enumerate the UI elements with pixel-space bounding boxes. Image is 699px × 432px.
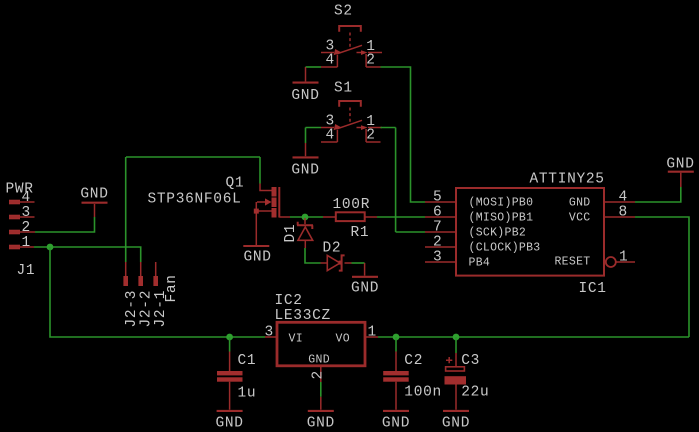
svg-text:GND: GND [308, 353, 330, 366]
svg-text:C3: C3 [461, 353, 480, 369]
connector J1 pin 1 [9, 235, 34, 251]
svg-text:100R: 100R [333, 197, 371, 213]
transistor Q1 MOSFET symbol [254, 184, 290, 246]
svg-text:GND: GND [291, 88, 319, 104]
IC2 pin 1 VO [366, 325, 378, 341]
svg-text:3: 3 [265, 325, 274, 341]
svg-text:GND: GND [442, 416, 470, 432]
svg-text:GND: GND [216, 416, 244, 432]
svg-text:J1: J1 [17, 263, 36, 279]
svg-text:2: 2 [433, 234, 442, 250]
wire 12V rail down and right to IC2 VI [50, 247, 265, 337]
IC1 pin 8 [605, 204, 635, 220]
ground below Q1 [243, 246, 271, 266]
wire S1 pin3 to GND [306, 128, 322, 144]
svg-text:STP36NF06L: STP36NF06L [148, 192, 242, 208]
connector J2-2 pin [138, 262, 143, 286]
wire IC1 pin8 VCC rail [378, 217, 689, 337]
wire drain net top horizontal [126, 156, 260, 158]
svg-text:Q1: Q1 [226, 176, 245, 192]
capacitor C1 [217, 352, 243, 410]
svg-text:4: 4 [326, 53, 335, 69]
svg-text:4: 4 [619, 189, 628, 205]
svg-text:VO: VO [336, 333, 350, 346]
svg-text:VCC: VCC [569, 212, 591, 225]
svg-text:4: 4 [22, 190, 31, 206]
IC1 pin 2 [425, 234, 455, 250]
ground below S2 [291, 67, 319, 104]
wire J1 pin1 to J2-2 [34, 247, 141, 262]
wire C1 to rail [229, 337, 231, 352]
IC2 pin 2 GND [311, 367, 327, 382]
node junction C3 top [453, 334, 460, 341]
ground below IC2 [307, 397, 335, 432]
svg-text:C2: C2 [404, 353, 423, 369]
capacitor C3 polarized [445, 353, 467, 410]
ground below C1 [216, 411, 244, 432]
connector J2-3 pin [123, 262, 128, 286]
svg-text:6: 6 [433, 204, 442, 220]
svg-text:GND: GND [80, 187, 108, 203]
svg-text:S1: S1 [334, 81, 353, 97]
svg-text:7: 7 [433, 219, 442, 235]
ground below C2 [382, 411, 410, 432]
svg-text:8: 8 [619, 204, 628, 220]
svg-text:GND: GND [666, 157, 694, 173]
svg-text:GND: GND [569, 197, 591, 210]
svg-text:2: 2 [366, 53, 375, 69]
IC1 pin 6 [425, 204, 455, 220]
svg-text:GND: GND [382, 416, 410, 432]
wire S2 pin4 to GND [306, 66, 322, 68]
IC1 box [456, 188, 604, 276]
svg-text:S2: S2 [334, 4, 353, 20]
wire C3 to rail [455, 337, 457, 353]
svg-text:GND: GND [307, 416, 335, 432]
wire J1 pin2 to GND [35, 217, 95, 232]
node junction C2 top [393, 334, 400, 341]
connector J1 pin 3 [9, 205, 35, 221]
svg-text:(SCK)PB2: (SCK)PB2 [469, 227, 527, 240]
connector J1 pin 2 [9, 220, 35, 236]
switch S1 [321, 101, 382, 144]
capacitor C2 [383, 352, 409, 410]
svg-text:1: 1 [368, 325, 377, 341]
resistor R1 [323, 212, 377, 221]
svg-text:PB4: PB4 [469, 257, 491, 270]
wire drain net down to J2-3 [125, 157, 127, 262]
node junction C1 top [226, 334, 233, 341]
wire IC2 pin2 to GND [320, 382, 322, 397]
svg-text:D1: D1 [283, 224, 299, 243]
diode D2 zener [321, 255, 352, 270]
ground GND (near J1, inverted) [80, 187, 108, 218]
connector J2-1 pin [153, 262, 158, 286]
IC1 pin 3 [425, 249, 455, 265]
svg-text:22u: 22u [461, 385, 489, 401]
diode D1 zener [297, 218, 313, 248]
wire R1 to IC1 pin6 [377, 216, 425, 218]
svg-text:2: 2 [366, 128, 375, 144]
svg-text:ATTINY25: ATTINY25 [530, 172, 605, 188]
node junction gate net [302, 214, 309, 221]
svg-text:GND: GND [291, 163, 319, 179]
wire D1 to D2 [305, 248, 321, 263]
svg-text:3: 3 [22, 205, 31, 221]
svg-text:VI: VI [289, 333, 303, 346]
svg-text:(MOSI)PB0: (MOSI)PB0 [469, 197, 534, 210]
svg-text:100n: 100n [404, 385, 442, 401]
svg-text:Fan: Fan [164, 274, 180, 302]
svg-text:1: 1 [619, 249, 628, 265]
IC2 pin 3 VI [265, 325, 277, 341]
wire C2 to rail [395, 337, 397, 352]
IC1 pin 7 [425, 219, 455, 235]
connector J1 pin 4 [9, 190, 35, 206]
svg-text:5: 5 [433, 189, 442, 205]
ground right of D2 [351, 263, 379, 297]
wire drain net down to Q1 drain [259, 157, 261, 184]
svg-text:2: 2 [311, 370, 327, 379]
svg-text:C1: C1 [238, 353, 257, 369]
IC1 pin 1 RESET bubble [606, 249, 635, 267]
svg-text:1: 1 [22, 235, 31, 251]
ground top right (inverted) [666, 157, 694, 188]
node junction J1 pin1 [47, 244, 54, 251]
svg-text:D2: D2 [323, 241, 342, 257]
wire D2 to GND [352, 262, 365, 264]
switch S2 [321, 26, 382, 69]
IC2 regulator box [277, 322, 365, 366]
wire gate net to R1 [290, 216, 323, 218]
wire S1 pin1 to IC1 pin7 [381, 128, 426, 233]
svg-text:(CLOCK)PB3: (CLOCK)PB3 [469, 242, 541, 255]
IC1 pin 5 [425, 189, 455, 205]
svg-text:GND: GND [244, 250, 272, 266]
svg-text:1u: 1u [238, 386, 257, 402]
svg-text:2: 2 [22, 220, 31, 236]
svg-text:IC1: IC1 [579, 281, 607, 297]
svg-text:4: 4 [326, 128, 335, 144]
svg-text:RESET: RESET [554, 256, 590, 269]
svg-text:3: 3 [433, 249, 442, 265]
ground below S1 [291, 143, 319, 179]
svg-text:R1: R1 [351, 225, 370, 241]
svg-text:IC2: IC2 [275, 293, 303, 309]
wire S2 pin2 to IC1 pin5 [381, 67, 426, 202]
IC1 pin 4 [605, 189, 635, 205]
svg-text:(MISO)PB1: (MISO)PB1 [469, 212, 534, 225]
svg-text:GND: GND [351, 281, 379, 297]
wire IC1 pin4 to GND [635, 187, 681, 202]
ground below C3 [442, 411, 470, 432]
